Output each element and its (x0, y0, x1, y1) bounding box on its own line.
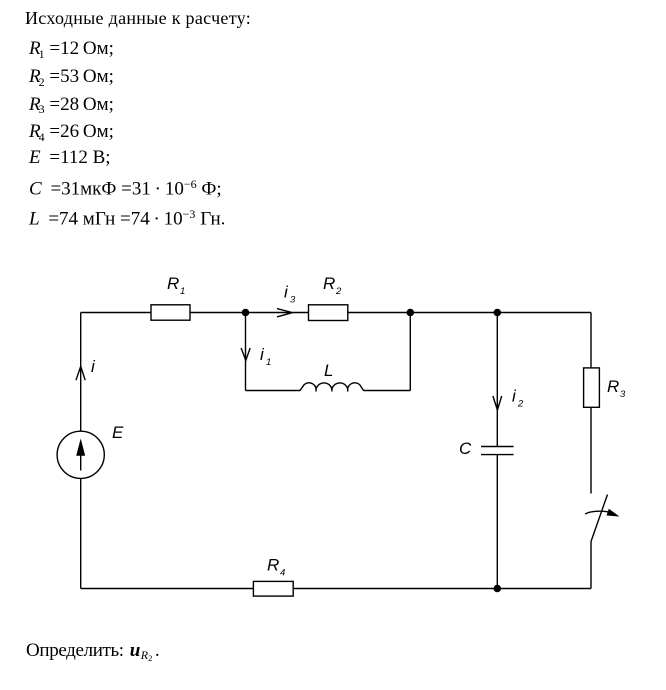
resistor R2 (309, 305, 348, 321)
label R1 (167, 274, 185, 297)
svg-text:R: R (607, 377, 619, 396)
label E (112, 423, 124, 442)
resistor R3 (584, 368, 600, 407)
arrow i3 chevron (277, 309, 292, 317)
svg-text:1: 1 (266, 357, 271, 368)
capacitor C plate bottom (481, 454, 514, 456)
source E arrow shaft (80, 455, 82, 471)
wire right lower (590, 542, 592, 589)
svg-text:3: 3 (290, 295, 296, 306)
svg-text:2: 2 (335, 286, 342, 297)
value E (29, 148, 111, 167)
label L (324, 361, 333, 380)
source E arrow head (76, 439, 85, 456)
label i1 (260, 345, 271, 368)
value C (29, 178, 222, 199)
switch action arc (585, 511, 611, 514)
value L (29, 208, 225, 229)
svg-text:R: R (323, 274, 335, 293)
wire L-branch bottom right lead (364, 390, 411, 392)
node C-top (494, 309, 502, 317)
wire bottom (81, 588, 591, 590)
resistor R1 (151, 305, 190, 320)
svg-text:i: i (91, 357, 96, 376)
label R2 (323, 274, 342, 297)
svg-text:R: R (167, 274, 179, 293)
svg-text:E: E (112, 423, 124, 442)
wire top (81, 312, 591, 314)
svg-text:C: C (459, 439, 472, 458)
value R2 (29, 67, 114, 88)
wire L-branch left (245, 313, 247, 391)
switch arrow head (607, 509, 620, 517)
node A (242, 309, 250, 317)
wire C-branch lower (496, 455, 498, 589)
svg-text:i: i (284, 283, 289, 302)
svg-text:2: 2 (517, 399, 524, 410)
arrow i chevron (76, 366, 85, 380)
label i2 (512, 387, 524, 410)
capacitor C plate top (481, 446, 514, 448)
value R3 (29, 95, 114, 116)
wire L-branch right (409, 313, 411, 391)
node C-bottom (494, 585, 502, 593)
inductor L (300, 383, 364, 392)
arrow i1 chevron (241, 348, 250, 360)
label i3 (284, 283, 296, 306)
resistor R4 (253, 581, 293, 596)
wire L-branch bottom left lead (246, 390, 301, 392)
wire C-branch upper (496, 313, 498, 447)
wire left (80, 313, 82, 589)
label R4 (267, 556, 285, 579)
question line (26, 641, 160, 663)
value R1 (29, 39, 114, 60)
source E circle (57, 431, 104, 478)
arrow i2 chevron (493, 396, 502, 410)
svg-text:R: R (267, 556, 279, 575)
switch blade (591, 495, 608, 542)
wire right upper (590, 313, 592, 494)
svg-text:i: i (260, 345, 265, 364)
label i (91, 357, 96, 376)
svg-text:L: L (324, 361, 333, 380)
value R4 (29, 122, 114, 143)
svg-text:4: 4 (280, 568, 285, 579)
svg-text:i: i (512, 387, 517, 406)
label R3 (607, 377, 626, 400)
label C (459, 439, 472, 458)
svg-text:3: 3 (620, 389, 626, 400)
title line (25, 9, 251, 27)
svg-text:1: 1 (180, 286, 185, 297)
node B (407, 309, 415, 317)
